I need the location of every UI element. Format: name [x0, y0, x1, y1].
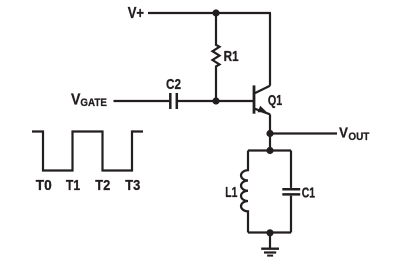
wire V_GATE to C2: [114, 100, 170, 102]
svg-text:C1: C1: [302, 184, 315, 201]
svg-text:T3: T3: [125, 177, 140, 194]
transistor Q1: [254, 85, 270, 133]
net label V_GATE: [71, 91, 107, 109]
junction node emitter / V_OUT: [266, 130, 273, 137]
wire tank top rail: [248, 149, 291, 151]
svg-text:V: V: [339, 125, 348, 142]
wire C2 to Q1 base: [178, 100, 254, 102]
capacitor C1: [282, 151, 300, 233]
junction node tank top: [266, 147, 273, 154]
svg-text:R1: R1: [224, 48, 239, 65]
junction node tank bottom: [266, 229, 273, 236]
svg-text:V+: V+: [128, 5, 144, 22]
wire V+ top rail: [148, 12, 271, 14]
svg-text:Q1: Q1: [268, 92, 282, 109]
svg-text:T1: T1: [66, 177, 80, 194]
wire tank bottom rail: [248, 231, 291, 233]
waveform V_GATE timing: [32, 132, 143, 171]
svg-text:L1: L1: [225, 184, 237, 201]
wire emitter node to V_OUT: [270, 132, 337, 134]
svg-text:T2: T2: [95, 177, 110, 194]
wire emitter node down to tank: [269, 134, 271, 151]
ground: [261, 233, 279, 256]
junction node base: [212, 97, 219, 104]
inductor L1: [241, 151, 248, 233]
junction node top rail / R1: [212, 9, 219, 16]
svg-text:T0: T0: [36, 177, 52, 194]
svg-text:C2: C2: [166, 76, 181, 93]
svg-text:GATE: GATE: [80, 97, 107, 109]
svg-text:V: V: [71, 91, 81, 108]
wire collector vertical from top rail: [269, 13, 271, 86]
svg-text:OUT: OUT: [348, 131, 369, 143]
net label V_OUT: [339, 125, 370, 143]
resistor R1: [213, 13, 220, 101]
capacitor C2: [170, 93, 177, 109]
